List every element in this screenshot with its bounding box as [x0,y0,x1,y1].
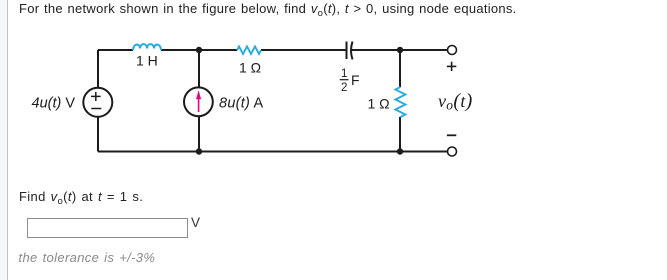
svg-text:4u(t) V: 4u(t) V [32,96,76,112]
svg-text:1: 1 [341,68,347,80]
svg-text:vo(t): vo(t) [438,90,473,112]
svg-text:F: F [351,72,360,88]
svg-text:8u(t) A: 8u(t) A [219,96,264,112]
svg-text:1 H: 1 H [136,53,158,69]
svg-text:1 Ω: 1 Ω [368,96,390,112]
svg-text:1 Ω: 1 Ω [239,60,261,76]
svg-text:2: 2 [341,82,347,94]
